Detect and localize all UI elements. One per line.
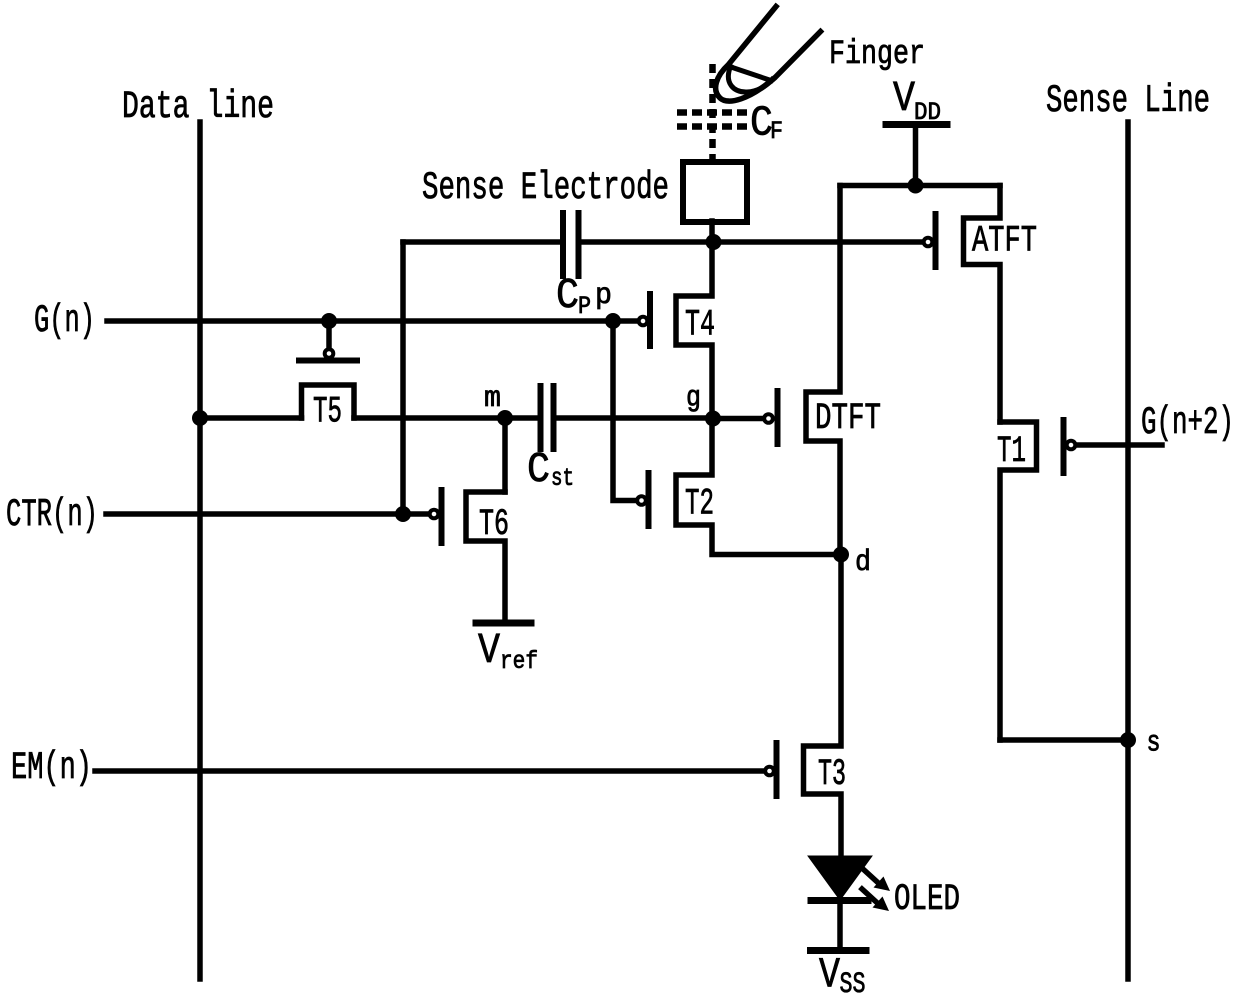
power Vref bar bbox=[476, 620, 531, 627]
wire p to T2 gate bbox=[613, 321, 636, 501]
wire Cp row left bbox=[403, 239, 560, 245]
junction CTR to Cp branch bbox=[395, 506, 411, 522]
wire top row DTFT to ATFT bbox=[840, 183, 1000, 189]
svg-text:T5: T5 bbox=[313, 392, 342, 434]
wire EM(n) row bbox=[95, 768, 764, 774]
wire m to T6 bbox=[502, 418, 508, 492]
svg-text:T4: T4 bbox=[685, 305, 715, 347]
wire Data line vertical rail bbox=[197, 122, 203, 979]
transistor ATFT gate bar bbox=[933, 214, 939, 267]
wire g to DTFT gate bubble bbox=[713, 416, 763, 422]
svg-text:V: V bbox=[478, 626, 500, 675]
svg-text:G(n+2): G(n+2) bbox=[1141, 401, 1234, 445]
transistor T6 gate bar bbox=[439, 490, 445, 543]
svg-text:SS: SS bbox=[840, 968, 866, 998]
svg-text:V: V bbox=[819, 951, 840, 998]
transistor T2 gate bar bbox=[646, 473, 652, 526]
svg-text:p: p bbox=[595, 279, 612, 313]
wire p to T4 gate bubble bbox=[613, 318, 637, 324]
svg-text:F: F bbox=[770, 117, 783, 146]
junction data line to m row bbox=[192, 410, 208, 426]
wire m row left: data line to T5 bbox=[200, 415, 302, 421]
svg-text:EM(n): EM(n) bbox=[11, 746, 92, 790]
svg-text:ATFT: ATFT bbox=[972, 221, 1037, 263]
node s junction bbox=[1120, 732, 1136, 748]
node p junction bbox=[605, 313, 621, 329]
svg-text:Sense Line: Sense Line bbox=[1046, 79, 1210, 123]
power VDD bar bbox=[886, 121, 947, 128]
junction VDD node bbox=[908, 178, 924, 194]
wire Cp row right to sense node bbox=[582, 239, 714, 245]
transistor DTFT gate bubble bbox=[764, 414, 773, 423]
transistor DTFT channel bbox=[806, 186, 840, 555]
capacitor Cst plates bbox=[538, 386, 544, 449]
svg-text:CTR(n): CTR(n) bbox=[6, 493, 98, 537]
svg-text:T3: T3 bbox=[818, 754, 846, 796]
transistor ATFT gate bubble bbox=[924, 238, 933, 247]
transistor T2 channel bbox=[676, 418, 841, 555]
svg-text:T1: T1 bbox=[997, 431, 1026, 473]
svg-text:ref: ref bbox=[500, 647, 538, 676]
transistor T3 channel bbox=[804, 555, 842, 858]
component sense electrode box bbox=[683, 162, 747, 222]
diode OLED triangle bbox=[811, 858, 869, 898]
svg-text:Sense Electrode: Sense Electrode bbox=[422, 166, 669, 210]
diode OLED light arrow 2 bbox=[862, 889, 879, 905]
diode OLED cathode bar bbox=[811, 897, 868, 904]
transistor T1 gate bubble bbox=[1067, 441, 1076, 450]
wire T1 to sense line bbox=[1000, 737, 1128, 743]
transistor DTFT gate bar bbox=[775, 391, 781, 444]
svg-text:g: g bbox=[686, 382, 701, 416]
transistor T5 channel hat bbox=[302, 385, 355, 418]
svg-text:T6: T6 bbox=[479, 504, 509, 546]
junction sense node bbox=[706, 234, 722, 250]
wire Cp branch vertical bbox=[400, 242, 406, 514]
transistor ATFT channel bbox=[964, 186, 1001, 423]
junction T5 gate on G(n) bbox=[321, 313, 337, 329]
transistor T5 gate bubble bbox=[325, 349, 334, 358]
transistor T4 channel bbox=[676, 242, 712, 418]
svg-text:Finger: Finger bbox=[829, 36, 925, 74]
svg-text:m: m bbox=[484, 382, 501, 416]
transistor T1 channel bbox=[1000, 422, 1037, 740]
capacitor Cp plates bbox=[560, 213, 566, 276]
wire Sense Line vertical rail bbox=[1125, 122, 1131, 979]
power VSS bar bbox=[811, 947, 867, 954]
node m junction bbox=[497, 410, 513, 426]
svg-text:d: d bbox=[855, 546, 871, 580]
svg-text:st: st bbox=[551, 464, 574, 493]
wire CTR(n) row bbox=[106, 511, 429, 517]
finger nail chord bbox=[733, 68, 772, 81]
svg-text:s: s bbox=[1147, 727, 1161, 761]
transistor T4 gate bubble bbox=[639, 317, 648, 326]
transistor T3 gate bubble bbox=[765, 767, 774, 776]
transistor T3 gate bar bbox=[774, 743, 780, 796]
capacitor CF dashed plates bbox=[677, 109, 747, 116]
svg-text:DTFT: DTFT bbox=[815, 398, 881, 440]
finger upper outline bbox=[716, 7, 821, 102]
wire OLED to VSS bbox=[837, 903, 843, 947]
wire electrode stub bbox=[709, 221, 715, 242]
node g junction bbox=[705, 411, 721, 427]
svg-text:G(n): G(n) bbox=[34, 299, 95, 343]
svg-text:OLED: OLED bbox=[894, 879, 960, 921]
wire VDD stem bbox=[913, 128, 919, 186]
node d junction bbox=[833, 547, 849, 563]
finger nail inner arc bbox=[728, 67, 772, 93]
transistor T2 gate bubble bbox=[637, 496, 646, 505]
transistor T6 gate bubble bbox=[430, 510, 439, 519]
transistor T6 channel bbox=[466, 492, 505, 619]
transistor T4 gate bar bbox=[647, 294, 653, 346]
capacitor CF dashed vertical bbox=[709, 64, 716, 160]
svg-text:C: C bbox=[527, 445, 550, 494]
wire m row: Cst to g bbox=[556, 415, 713, 421]
svg-text:C: C bbox=[556, 271, 579, 320]
wire sense node to ATFT gate bbox=[714, 239, 923, 245]
diode OLED light arrow 1 bbox=[863, 869, 880, 885]
svg-text:P: P bbox=[578, 292, 591, 321]
wire G(n+2) row bbox=[1077, 442, 1162, 448]
wire m row: T5 to Cst bbox=[354, 415, 538, 421]
transistor T5 gate lead bbox=[326, 321, 332, 347]
transistor T1 gate bar bbox=[1061, 420, 1067, 473]
wire G(n) row bbox=[107, 318, 613, 324]
svg-text:T2: T2 bbox=[685, 484, 714, 526]
svg-text:V: V bbox=[893, 74, 915, 123]
transistor T5 gate bar bbox=[299, 358, 357, 364]
